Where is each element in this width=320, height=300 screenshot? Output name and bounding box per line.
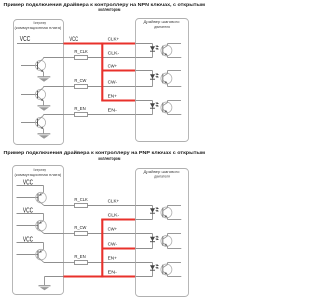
wire GND to EN- (red net): [64, 275, 136, 277]
ground: [38, 134, 51, 139]
svg-text:EN+: EN+: [108, 256, 117, 262]
svg-text:CLK-: CLK-: [108, 213, 120, 219]
svg-text:EN-: EN-: [108, 108, 118, 114]
ground (bottom controller): [39, 277, 51, 291]
transistor Q1 (NPN): [21, 58, 64, 77]
svg-text:R_EN: R_EN: [74, 106, 85, 111]
wire red stub EN+: [101, 99, 135, 101]
svg-text:двигателя: двигателя: [154, 25, 170, 29]
resistor R_EN: [64, 113, 136, 117]
svg-text:VCC: VCC: [23, 205, 34, 214]
svg-text:EN-: EN-: [108, 270, 118, 276]
svg-text:Контроллер: Контроллер: [34, 21, 47, 25]
svg-text:EN+: EN+: [108, 94, 117, 100]
resistor R_EN: [64, 261, 136, 265]
wire VCC to CLK+ (red net): [64, 42, 136, 44]
wire VCC rail (top): [17, 43, 64, 45]
svg-text:R_CW: R_CW: [74, 225, 87, 230]
svg-text:VCC: VCC: [69, 36, 78, 43]
svg-text:(коммутационная плата): (коммутационная плата): [15, 26, 62, 30]
optocoupler U1: [136, 44, 182, 58]
wire GND rail (bottom): [45, 276, 64, 278]
resistor R_CLK: [64, 56, 136, 60]
wire red stub CW-: [102, 247, 135, 249]
transistor Q4 (PNP): [17, 186, 64, 206]
svg-text:коллектором: коллектором: [98, 156, 120, 161]
transistor Q2 (NPN): [21, 87, 64, 106]
svg-text:VCC: VCC: [23, 234, 34, 243]
driver box (top): [136, 19, 189, 142]
wire VCC3: [17, 242, 44, 244]
transistor Q5 (PNP): [17, 214, 64, 234]
svg-text:(коммутационная плата): (коммутационная плата): [15, 173, 62, 177]
optocoupler U4: [136, 206, 182, 220]
resistor R_CLK: [64, 204, 136, 208]
svg-text:Пример подключения драйвера к: Пример подключения драйвера к контроллер…: [4, 149, 206, 155]
optocoupler U3: [136, 101, 182, 115]
transistor Q3 (NPN): [21, 115, 64, 134]
svg-text:CLK-: CLK-: [108, 51, 120, 57]
optocoupler U2: [136, 71, 182, 87]
svg-text:CW+: CW+: [108, 227, 118, 233]
svg-text:VCC: VCC: [23, 177, 34, 186]
svg-text:R_EN: R_EN: [74, 254, 85, 259]
svg-text:R_CLK: R_CLK: [74, 197, 88, 202]
svg-text:R_CW: R_CW: [74, 78, 87, 83]
svg-text:R_CLK: R_CLK: [74, 49, 88, 54]
transistor Q6 (PNP): [17, 243, 64, 263]
svg-text:Драйвер шагового: Драйвер шагового: [144, 170, 180, 174]
svg-text:CW+: CW+: [108, 64, 118, 70]
wire VCC1: [17, 185, 44, 187]
ground: [38, 77, 51, 82]
ground: [38, 106, 51, 111]
svg-text:CW-: CW-: [108, 242, 118, 248]
controller box (top): [14, 20, 64, 145]
wire red bus vertical (bottom): [101, 220, 103, 278]
resistor R_CW: [64, 232, 136, 236]
svg-text:CLK+: CLK+: [108, 37, 120, 43]
driver box (bottom): [136, 169, 189, 297]
svg-text:двигателя: двигателя: [154, 175, 170, 179]
svg-text:VCC: VCC: [20, 34, 31, 43]
wire red stub CLK-: [101, 218, 135, 220]
controller box (bottom): [13, 166, 64, 295]
svg-text:CLK+: CLK+: [108, 199, 120, 205]
svg-text:CW-: CW-: [108, 80, 118, 86]
svg-text:Контроллер: Контроллер: [34, 168, 47, 172]
optocoupler U6: [136, 263, 182, 277]
optocoupler U5: [136, 234, 182, 249]
resistor R_CW: [64, 85, 136, 89]
svg-text:Драйвер шагового: Драйвер шагового: [144, 20, 180, 24]
svg-text:коллектором: коллектором: [98, 7, 120, 12]
wire red stub CW+: [102, 69, 135, 71]
wire VCC2: [17, 213, 44, 215]
wire red bus vertical (top): [101, 42, 103, 100]
